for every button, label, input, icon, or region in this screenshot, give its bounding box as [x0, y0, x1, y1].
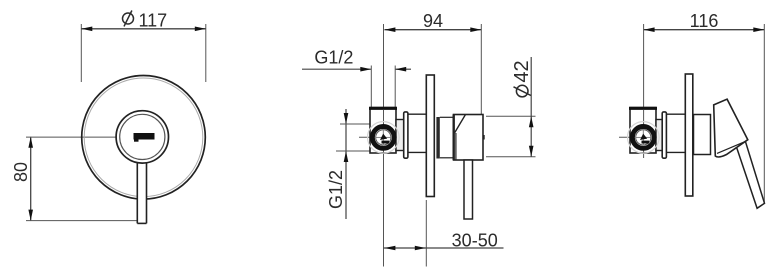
- svg-text:30-50: 30-50: [452, 231, 498, 251]
- svg-text:117: 117: [139, 11, 168, 31]
- svg-text:G1/2: G1/2: [326, 170, 346, 209]
- svg-text:G1/2: G1/2: [314, 48, 353, 68]
- svg-text:94: 94: [423, 11, 443, 31]
- svg-text:42: 42: [511, 60, 533, 82]
- svg-text:80: 80: [11, 162, 31, 182]
- svg-text:116: 116: [690, 11, 719, 31]
